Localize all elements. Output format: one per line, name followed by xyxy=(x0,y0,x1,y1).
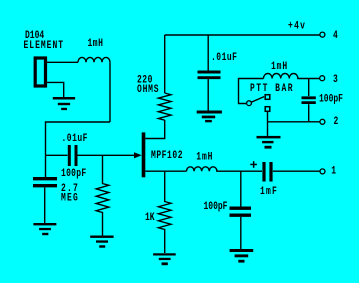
capacitor C3 .01uF plates xyxy=(198,72,221,78)
drain wire xyxy=(145,120,165,139)
svg-text:.01uF: .01uF xyxy=(211,51,237,64)
capacitor C2 .01uF coupling plates xyxy=(69,145,76,166)
ground G3 (2.7MEG) xyxy=(90,236,113,238)
resistor R1 2.7 MEG xyxy=(96,155,109,235)
svg-text:1mH: 1mH xyxy=(196,150,213,163)
wire to left junction xyxy=(46,122,111,177)
svg-text:100pF: 100pF xyxy=(61,167,86,180)
svg-text:1mF: 1mF xyxy=(260,185,278,198)
transistor Q1 MPF102 bar xyxy=(142,132,146,177)
inductor L2 1mH xyxy=(264,74,320,79)
svg-text:PTT BAR: PTT BAR xyxy=(250,82,294,95)
svg-text:OHMS: OHMS xyxy=(137,83,159,96)
svg-text:1mH: 1mH xyxy=(88,37,104,50)
svg-text:3: 3 xyxy=(333,73,338,86)
inductor L3 1mH xyxy=(187,167,263,171)
resistor R3 1K xyxy=(158,171,171,253)
resistor R2 220 OHMS xyxy=(158,35,171,120)
svg-text:100pF: 100pF xyxy=(204,200,228,213)
svg-text:4: 4 xyxy=(333,29,338,42)
svg-text:.01uF: .01uF xyxy=(62,132,88,145)
wire junction to terminal 2 xyxy=(268,121,320,123)
wire junction down to C6 xyxy=(240,171,242,249)
gate wire right xyxy=(78,154,135,156)
capacitor C4 100pF plates xyxy=(302,98,316,103)
switch pole circle xyxy=(247,101,252,106)
gate arrowhead xyxy=(134,152,142,158)
switch lever xyxy=(251,97,264,103)
switch contact square 1 xyxy=(265,95,270,100)
switch contact square 2 xyxy=(265,107,270,112)
wire L1 down xyxy=(109,62,111,122)
gate arrow wire end xyxy=(134,154,136,156)
terminal 3 circle xyxy=(320,76,325,81)
ground G5 (PTT) xyxy=(257,136,281,139)
top rail to terminal 4 xyxy=(165,34,320,36)
ground G6 (1K) xyxy=(153,253,176,255)
wire C3 .01uF top stem xyxy=(207,35,209,111)
capacitor C5 1mF plates xyxy=(264,162,271,182)
ground G2 (100pF left) xyxy=(33,223,56,225)
terminal 2 circle xyxy=(320,119,325,124)
ground G7 (100pF bottom) xyxy=(230,249,254,252)
capacitor C6 100pF plates xyxy=(230,208,252,215)
svg-text:1K: 1K xyxy=(145,211,155,224)
PTT wire from L2 left down xyxy=(239,79,264,104)
svg-text:ELEMENT: ELEMENT xyxy=(24,39,65,52)
svg-text:100pF: 100pF xyxy=(319,92,343,105)
terminal 1 circle xyxy=(320,169,325,174)
wire sq2 to ground junction xyxy=(267,112,269,136)
capacitor C4 100pF stem xyxy=(308,79,310,122)
svg-text:1mH: 1mH xyxy=(271,60,288,73)
source wire xyxy=(145,170,186,172)
D104 crystal element body xyxy=(35,58,45,86)
inductor L1 1mH xyxy=(78,57,110,62)
gate wire left xyxy=(46,154,68,156)
terminal 4 circle xyxy=(320,32,325,37)
svg-text:MPF102: MPF102 xyxy=(151,149,183,162)
wire C1 to ground xyxy=(44,188,46,224)
ground G4 (.01uF top) xyxy=(197,111,222,114)
wire D104 to ground xyxy=(47,82,64,97)
svg-text:1: 1 xyxy=(331,164,336,177)
svg-text:+4v: +4v xyxy=(288,19,306,32)
svg-text:2: 2 xyxy=(334,115,339,128)
ground G1 (D104) xyxy=(53,97,75,100)
wire C5 to terminal 1 xyxy=(273,170,320,172)
svg-text:MEG: MEG xyxy=(61,191,79,204)
wire D104 to L1 xyxy=(47,61,78,63)
capacitor C1 100pF plates xyxy=(33,179,57,186)
plus sign 1mF xyxy=(250,164,257,166)
